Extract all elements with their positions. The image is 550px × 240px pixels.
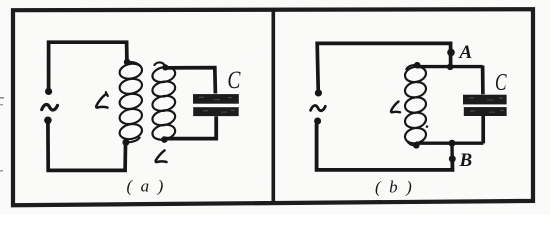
wire: capacitor bottom back to secondary coil bottom [166, 116, 216, 138]
node A dot [447, 49, 455, 57]
svg-text:B: B [459, 150, 473, 171]
wire: (a) source bottom terminal down, across bottom, up to primary coil bottom [48, 123, 126, 170]
junction dot: tank circuit top [447, 64, 454, 71]
AC source symbol ~ , circuit (a) [42, 104, 58, 109]
wire: tank circuit bottom rail [416, 141, 483, 144]
AC source terminal dot (top), circuit (b) [315, 89, 322, 96]
inductor L (circuit b, loops bulge left) [404, 65, 428, 146]
AC source terminal dot (top), circuit (a) [45, 88, 52, 95]
junction dot: primary coil top [124, 59, 131, 66]
node B dot [449, 155, 456, 162]
svg-text:(a): (a) [127, 177, 172, 196]
capacitor C (circuit b) top plate [463, 95, 507, 105]
svg-text:A: A [459, 42, 473, 63]
label L (secondary inductor) [156, 151, 167, 163]
AC source terminal dot (bottom), circuit (a) [44, 117, 52, 125]
junction dot: coil bottom (b) [413, 142, 420, 149]
junction dot: coil top (b) [414, 62, 421, 69]
inductor L (secondary coil) [151, 62, 177, 141]
inductor L' (primary coil, loops bulge right) [118, 62, 143, 143]
label L' (primary inductor) [96, 92, 108, 107]
terminal dot: secondary coil top [162, 64, 168, 70]
junction dot: primary coil bottom [122, 139, 129, 146]
wire: node B down, across bottom, up to source bottom terminal [317, 124, 453, 170]
AC source terminal dot (bottom), circuit (b) [314, 118, 321, 125]
wire: capacitor bottom plate down to tank bottom rail [481, 116, 485, 144]
svg-text:(b): (b) [375, 178, 420, 197]
capacitor C (circuit b) bottom plate [464, 107, 507, 116]
terminal dot: secondary coil bottom [161, 136, 168, 143]
wire: capacitor branch, top rail down to top plate [481, 66, 485, 95]
wire: (a) source top terminal up, across top, down to primary coil top [49, 42, 127, 89]
svg-text:C: C [227, 66, 241, 94]
capacitor C (circuit a) bottom plate [193, 107, 239, 116]
capacitor C (circuit a) top plate [193, 94, 239, 104]
svg-text:C: C [495, 68, 507, 96]
junction dot: tank circuit bottom [449, 140, 456, 147]
wire: secondary coil top to capacitor branch [167, 68, 215, 94]
label L (circuit b inductor) [391, 102, 400, 113]
wire: tank circuit top rail [417, 65, 483, 68]
wire: tank bottom junction down to node B [450, 144, 454, 157]
wire: (b) source top terminal up, across top to node A, down to tank top [317, 43, 450, 89]
AC source symbol ~ , circuit (b) [311, 105, 326, 110]
